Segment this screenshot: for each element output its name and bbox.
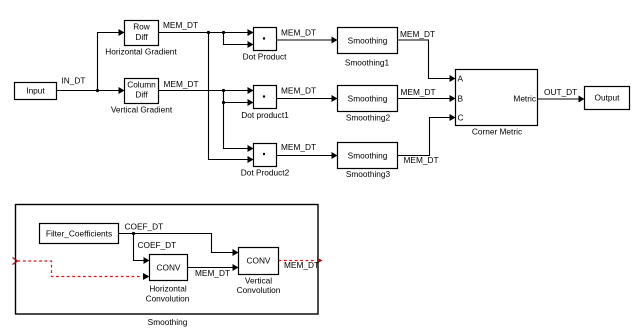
node junction Row Diff branch (207, 31, 210, 34)
svg-text:IN_DT: IN_DT (62, 76, 86, 86)
block Dot Product (254, 28, 277, 51)
svg-text:Output: Output (595, 93, 621, 103)
block Smoothing2 (338, 86, 398, 112)
svg-text:MEM_DT: MEM_DT (284, 260, 319, 270)
svg-text:COEF_DT: COEF_DT (125, 222, 164, 232)
node junction COEF branch (132, 232, 135, 235)
node junction on Input wire (96, 89, 99, 92)
svg-text:CONV: CONV (247, 256, 271, 266)
svg-text:Diff: Diff (135, 90, 148, 100)
wire MEM_DT Dot product1 to Smoothing2 (277, 95, 338, 102)
svg-text:Corner Metric: Corner Metric (472, 127, 522, 137)
block Smoothing1 (338, 28, 398, 54)
block Filter_Coefficients (40, 224, 119, 244)
svg-text:Smoothing2: Smoothing2 (346, 113, 391, 123)
svg-text:Dot Product2: Dot Product2 (241, 168, 290, 178)
block CONV Vertical Convolution (239, 248, 279, 275)
block Dot product1 (254, 86, 277, 109)
port marker red output arrow (317, 258, 323, 264)
block CONV Horizontal Convolution (150, 255, 188, 281)
svg-text:Convolution: Convolution (146, 294, 190, 304)
label Vertical Convolution (237, 276, 281, 296)
svg-text:Metric: Metric (513, 94, 536, 104)
svg-text:MEM_DT: MEM_DT (281, 28, 316, 38)
svg-text:Column: Column (127, 80, 156, 90)
wire branch from Input junction up to Row Diff (98, 29, 125, 91)
svg-text:OUT_DT: OUT_DT (544, 87, 577, 97)
svg-text:Dot product1: Dot product1 (241, 110, 289, 120)
svg-text:COEF_DT: COEF_DT (138, 240, 177, 250)
wire MEM_DT Dot Product2 to Smoothing3 (277, 152, 338, 159)
svg-text:Horizontal: Horizontal (149, 284, 187, 294)
wire MEM_DT from Column Diff to Dot product1 (159, 87, 254, 94)
svg-text:C: C (458, 113, 464, 123)
svg-text:Smoothing: Smoothing (348, 94, 388, 104)
wire OUT_DT from Corner Metric to Output (538, 96, 585, 103)
block Input (15, 83, 57, 100)
svg-text:MEM_DT: MEM_DT (163, 20, 198, 30)
svg-text:MEM_DT: MEM_DT (281, 86, 316, 96)
svg-text:A: A (458, 74, 464, 84)
svg-text:Horizontal Gradient: Horizontal Gradient (105, 47, 177, 57)
wire COEF branch down to Horizontal Convolution (134, 234, 150, 265)
wire Smoothing3 to Corner Metric C (398, 114, 456, 156)
svg-text:CONV: CONV (157, 263, 181, 273)
svg-text:Row: Row (133, 22, 151, 32)
svg-text:Dot Product: Dot Product (243, 52, 288, 62)
wire to Dot product1 lower input (224, 99, 254, 106)
block Row Diff (Horizontal Gradient) (125, 21, 159, 46)
subsystem box Smoothing (16, 205, 319, 315)
svg-text:Diff: Diff (135, 32, 148, 42)
svg-text:Smoothing: Smoothing (148, 317, 188, 327)
svg-text:MEM_DT: MEM_DT (400, 29, 435, 39)
block Output (585, 87, 630, 110)
svg-text:MEM_DT: MEM_DT (164, 79, 199, 89)
svg-text:Smoothing3: Smoothing3 (346, 169, 391, 179)
label Horizontal Convolution (146, 284, 190, 304)
port marker red input chevron (13, 258, 18, 265)
svg-text:B: B (458, 93, 464, 103)
wire Row Diff vertical down to Dot Product2 lower input (209, 33, 254, 164)
svg-text:Convolution: Convolution (237, 285, 281, 295)
node junction for Dot product1 lower input (222, 101, 225, 104)
svg-text:MEM_DT: MEM_DT (401, 87, 436, 97)
wire red dashed input to Horizontal Convolution (18, 261, 150, 280)
wire Column Diff vertical down to Dot Product2 upper input (224, 91, 254, 153)
wire IN_DT from Input to Column Diff (57, 87, 125, 94)
wire jog to Dot Product lower input (224, 33, 254, 49)
svg-text:Filter_Coefficients: Filter_Coefficients (46, 229, 112, 239)
svg-text:Vertical Gradient: Vertical Gradient (111, 105, 173, 115)
block Corner Metric (456, 70, 538, 126)
svg-text:MEM_DT: MEM_DT (281, 142, 316, 152)
block Smoothing3 (338, 143, 398, 169)
svg-text:Smoothing1: Smoothing1 (345, 58, 390, 68)
node junction Column Diff branch (222, 89, 225, 92)
wire red dashed output MEM_DT (279, 260, 317, 262)
wire MEM_DT Dot Product to Smoothing1 (277, 37, 338, 44)
svg-text:Smoothing: Smoothing (348, 151, 388, 161)
svg-text:Vertical: Vertical (245, 276, 272, 286)
svg-text:MEM_DT: MEM_DT (404, 155, 439, 165)
node junction Row Diff second tap (222, 31, 225, 34)
svg-text:MEM_DT: MEM_DT (195, 268, 230, 278)
svg-text:Input: Input (26, 86, 45, 96)
wire MEM_DT from Row Diff to Dot Product (159, 29, 254, 36)
wire Smoothing2 to Corner Metric B (398, 95, 456, 102)
svg-text:Smoothing: Smoothing (348, 36, 388, 46)
wire MEM_DT from Horizontal Convolution to Vertical Convolution (188, 264, 239, 271)
block Dot Product2 (254, 144, 277, 167)
wire Smoothing1 to Corner Metric A (398, 40, 456, 82)
wire COEF_DT from Filter_Coefficients to Vertical Convolution (119, 234, 239, 257)
block Column Diff (Vertical Gradient) (125, 79, 159, 104)
